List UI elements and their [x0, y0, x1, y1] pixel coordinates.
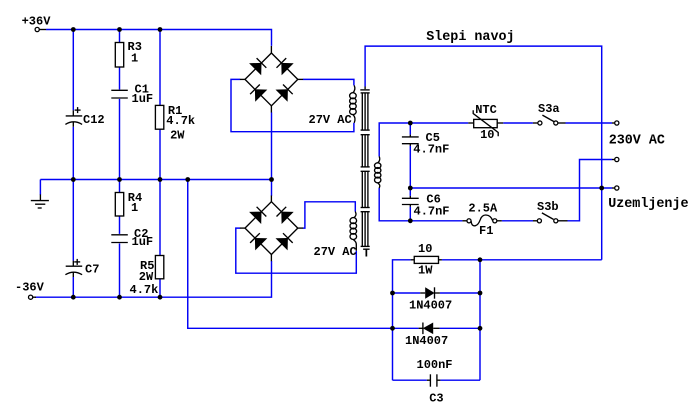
wire C1 to mid rail	[119, 99, 121, 180]
wire R3 to C1	[119, 67, 121, 90]
wire C5 bottom to earth line	[409, 146, 411, 188]
svg-text:27V AC: 27V AC	[309, 113, 352, 127]
wire +36V column to C12	[72, 30, 74, 111]
wire mid rail to C7	[72, 180, 74, 261]
ground	[31, 194, 49, 208]
wire Slepi navoj from core to right column	[365, 46, 602, 260]
wire 10 ohm resistor right to column	[442, 259, 602, 261]
svg-text:10: 10	[480, 128, 494, 142]
svg-text:T: T	[363, 247, 370, 261]
svg-text:4.7k: 4.7k	[130, 283, 159, 297]
transformer winding L1	[350, 85, 357, 123]
wire top +36V rail to bridge1 top	[46, 30, 272, 46]
wire ground branch	[39, 180, 41, 195]
svg-text:2.5A: 2.5A	[468, 201, 498, 215]
resistor R3	[115, 43, 123, 68]
switch S3b	[533, 213, 568, 223]
diode B2 lower-right	[276, 233, 293, 250]
diode B2 lower-left	[250, 233, 267, 250]
svg-text:230V AC: 230V AC	[609, 134, 665, 149]
resistor R1	[155, 105, 163, 129]
svg-text:F1: F1	[479, 224, 493, 238]
svg-text:S3a: S3a	[538, 102, 560, 116]
svg-text:1uF: 1uF	[132, 92, 154, 106]
wire 10 ohm resistor left and left block column	[393, 260, 411, 380]
wire bridge1 bottom to mid rail	[271, 112, 273, 179]
wire bridge2 right loop to winding L2 top	[303, 202, 355, 228]
wire C2 to bottom rail	[119, 243, 121, 297]
wire R4 to C2	[119, 216, 121, 234]
bridge rectifier B1	[240, 46, 303, 113]
svg-text:1W: 1W	[418, 264, 433, 278]
capacitor C12 electrolytic	[65, 107, 82, 127]
wire C5 top lead	[409, 123, 411, 135]
wire NTC to S3a	[503, 122, 533, 124]
diode B1 upper-left	[249, 58, 266, 75]
wire right block column	[479, 260, 481, 380]
terminal -36V	[29, 295, 37, 299]
bridge rectifier B2	[240, 196, 303, 262]
terminal +36V	[35, 27, 46, 31]
wire -36V bottom rail to bridge2 bottom	[35, 261, 272, 297]
wire bridge1 right to winding L1 top	[303, 79, 354, 85]
wire C6 top lead	[409, 188, 411, 196]
diode B2 upper-right	[277, 207, 294, 224]
diode D1 1N4007	[420, 287, 440, 299]
svg-text:1uF: 1uF	[132, 235, 154, 249]
svg-text:4.7nF: 4.7nF	[414, 205, 450, 219]
svg-text:2W: 2W	[170, 129, 185, 143]
wire mid rail to R5	[159, 180, 161, 256]
capacitor C6	[402, 196, 419, 207]
svg-text:1N4007: 1N4007	[405, 334, 448, 348]
transformer core	[360, 87, 369, 247]
wire C7 to bottom rail	[72, 277, 74, 297]
svg-text:27V AC: 27V AC	[314, 245, 357, 259]
wire top rail to R3	[119, 30, 121, 43]
wire mid rail to bridge2 top	[271, 180, 273, 196]
fuse F1	[462, 215, 501, 226]
wire mid rail to R4	[119, 180, 121, 193]
svg-text:Slepi navoj: Slepi navoj	[426, 30, 514, 45]
svg-text:100nF: 100nF	[417, 358, 453, 372]
wire S3a to 230V terminal 1	[566, 122, 613, 124]
wire secondary top lead to NTC line	[379, 123, 468, 156]
capacitor C3	[427, 374, 441, 386]
transformer winding L2	[350, 212, 357, 251]
svg-text:+36V: +36V	[22, 14, 52, 28]
diode B1 lower-left	[250, 85, 267, 102]
wire secondary bottom lead to fuse line	[379, 188, 462, 221]
wire C3 row	[393, 379, 427, 381]
wire top rail to R1	[159, 30, 161, 106]
diode B2 upper-left	[249, 207, 266, 224]
diode B1 upper-right	[277, 58, 294, 75]
svg-text:4.7nF: 4.7nF	[413, 142, 449, 156]
resistor R5	[155, 256, 163, 279]
diode D2 1N4007	[419, 323, 440, 335]
thermistor NTC	[468, 110, 503, 136]
capacitor C5	[402, 135, 419, 146]
wire R5 to bottom rail	[159, 279, 161, 297]
svg-text:Uzemljenje: Uzemljenje	[608, 197, 688, 212]
terminal 230V AC line2	[612, 157, 619, 161]
wire earth line to terminal	[410, 187, 612, 189]
wire mid rail	[40, 179, 271, 181]
terminal Uzemljenje	[612, 186, 619, 190]
wire fuse to S3b	[502, 220, 533, 222]
svg-text:1: 1	[131, 52, 138, 66]
terminal 230V AC line1	[612, 121, 619, 125]
svg-text:C7: C7	[85, 263, 99, 277]
wire bridge1 left loop to winding L1 bottom	[231, 79, 354, 131]
capacitor C2	[111, 235, 128, 243]
wire C6 bottom lead	[409, 207, 411, 221]
switch S3a	[533, 115, 566, 125]
diode B1 lower-right	[276, 85, 293, 102]
wire diode D2 row	[393, 327, 419, 329]
wire mid rail down to diode block left	[188, 180, 393, 329]
svg-text:C3: C3	[429, 392, 443, 406]
capacitor C1	[111, 90, 128, 98]
wire bridge2 left loop to winding L2 bottom	[236, 228, 356, 273]
svg-text:1N4007: 1N4007	[409, 299, 452, 313]
wire C12 to mid rail	[72, 127, 74, 180]
svg-text:NTC: NTC	[475, 103, 497, 117]
svg-text:-36V: -36V	[15, 281, 45, 295]
svg-text:2W: 2W	[139, 270, 154, 284]
wire diode D1 row	[393, 292, 421, 294]
wire S3b up to 230V terminal 2	[568, 160, 613, 221]
capacitor C7 electrolytic	[65, 259, 82, 277]
svg-text:10: 10	[418, 242, 432, 256]
transformer secondary winding	[375, 156, 381, 188]
resistor 10 1W	[411, 256, 442, 263]
svg-text:4.7k: 4.7k	[166, 114, 195, 128]
resistor R4	[115, 193, 123, 217]
svg-text:1: 1	[131, 201, 138, 215]
svg-text:C12: C12	[83, 113, 105, 127]
svg-text:S3b: S3b	[537, 200, 559, 214]
wire R1 to mid rail	[159, 129, 161, 179]
